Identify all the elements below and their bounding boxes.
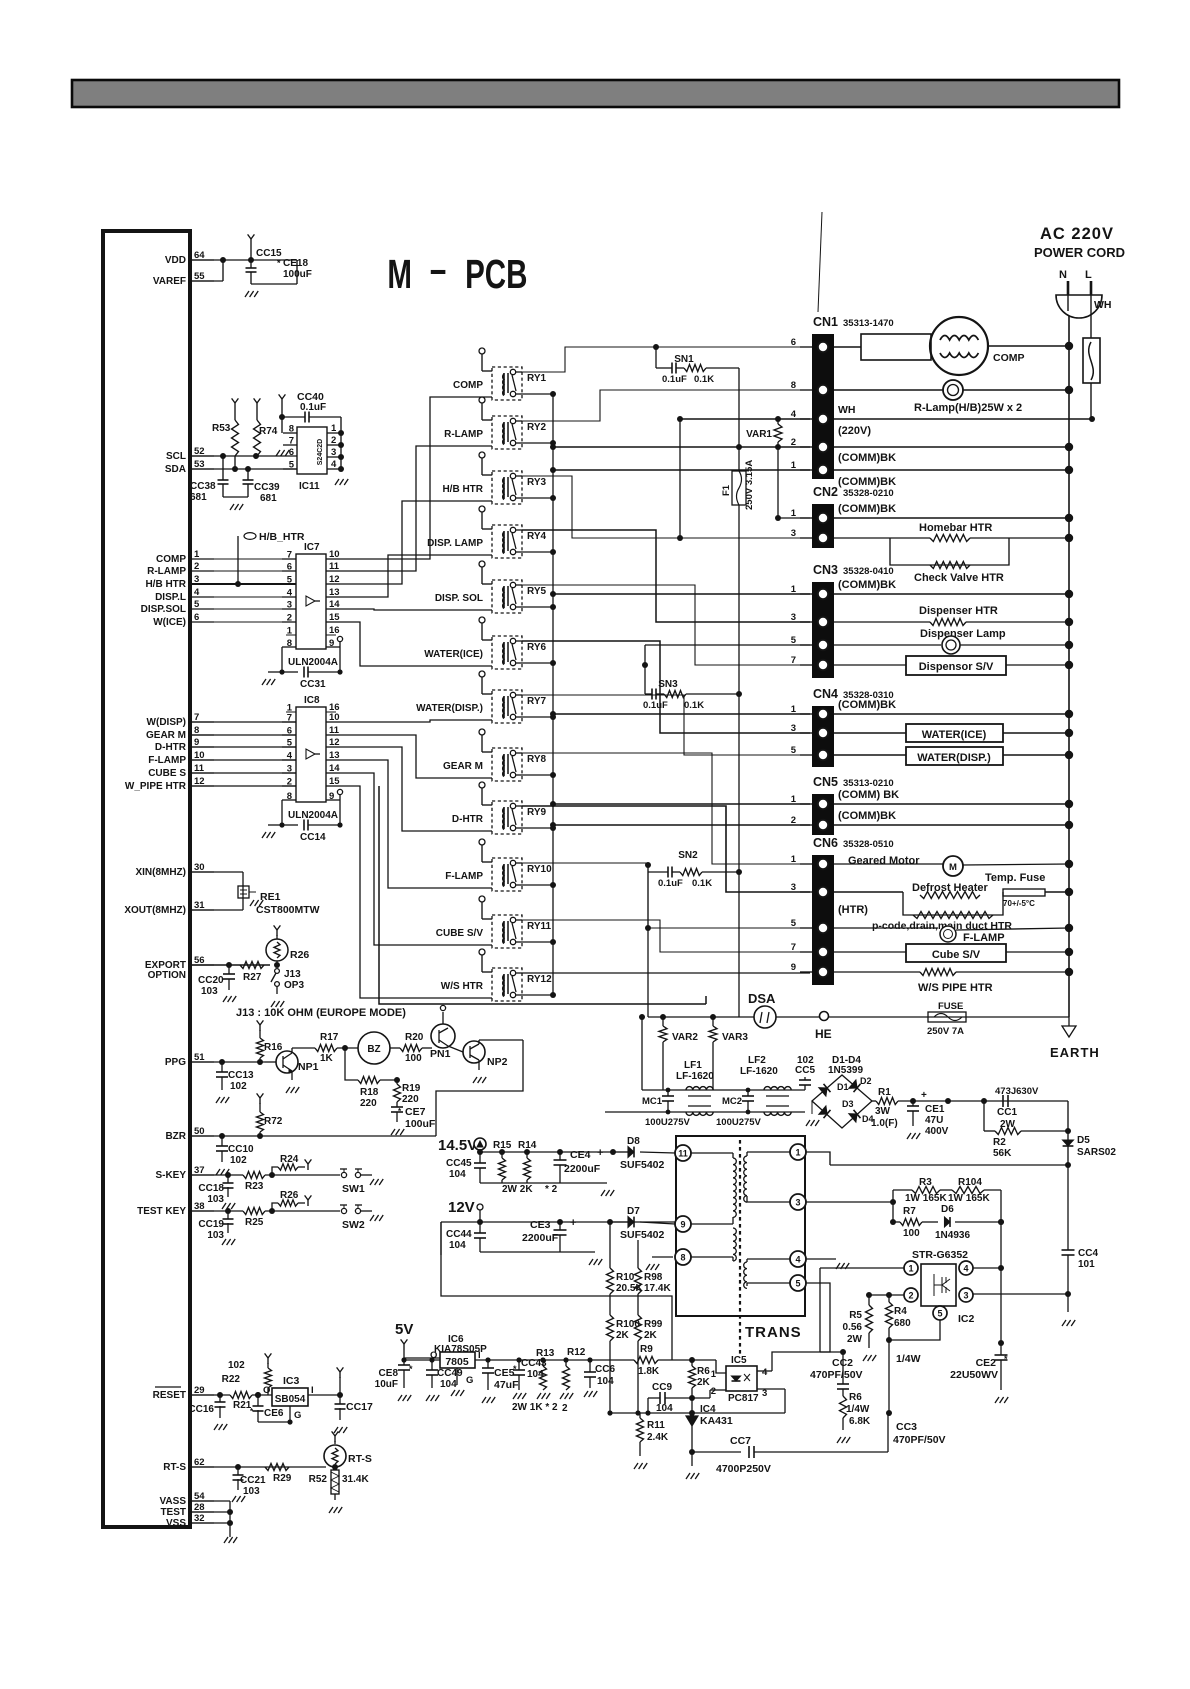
svg-text:CE1: CE1 <box>925 1104 945 1115</box>
svg-text:PCB: PCB <box>465 251 527 297</box>
svg-text:Dispenser Lamp: Dispenser Lamp <box>920 628 1006 640</box>
svg-text:R27: R27 <box>243 972 262 983</box>
svg-text:N: N <box>1059 269 1067 281</box>
svg-text:1W 165K: 1W 165K <box>905 1193 947 1204</box>
svg-text:220: 220 <box>360 1098 377 1109</box>
svg-text:12: 12 <box>329 737 340 748</box>
svg-text:R104: R104 <box>958 1177 982 1188</box>
svg-text:31.4K: 31.4K <box>342 1474 369 1485</box>
svg-text:5: 5 <box>791 918 797 929</box>
svg-text:4: 4 <box>795 1255 800 1265</box>
svg-text:W_PIPE HTR: W_PIPE HTR <box>125 781 187 792</box>
svg-text:2: 2 <box>331 435 336 446</box>
svg-text:250V 7A: 250V 7A <box>927 1026 964 1037</box>
svg-text:3: 3 <box>963 1291 968 1301</box>
svg-text:CC4: CC4 <box>1078 1248 1098 1259</box>
svg-text:(COMM)BK: (COMM)BK <box>838 503 896 515</box>
svg-text:G: G <box>294 1410 301 1421</box>
svg-text:7: 7 <box>289 436 294 447</box>
svg-text:1: 1 <box>287 703 293 714</box>
svg-text:RT-S: RT-S <box>163 1462 186 1473</box>
svg-text:70+/-5°C: 70+/-5°C <box>1003 899 1035 908</box>
svg-text:10: 10 <box>329 712 340 723</box>
svg-text:CC17: CC17 <box>346 1401 373 1413</box>
svg-text:CC1: CC1 <box>997 1107 1017 1118</box>
svg-text:R26: R26 <box>280 1190 299 1201</box>
svg-text:7: 7 <box>791 942 796 953</box>
svg-text:R25: R25 <box>245 1217 264 1228</box>
svg-text:SW1: SW1 <box>342 1183 365 1195</box>
svg-text:R19: R19 <box>402 1083 421 1094</box>
svg-text:BZR: BZR <box>165 1131 186 1142</box>
svg-text:R52: R52 <box>309 1474 328 1485</box>
svg-text:RY12: RY12 <box>527 974 552 985</box>
svg-text:0.56: 0.56 <box>843 1322 863 1333</box>
svg-text:0.1K: 0.1K <box>684 700 704 711</box>
svg-text:S-KEY: S-KEY <box>155 1170 186 1181</box>
svg-text:100uF: 100uF <box>283 269 312 280</box>
svg-text:D-HTR: D-HTR <box>452 814 484 825</box>
svg-text:OPTION: OPTION <box>148 970 186 981</box>
svg-text:102: 102 <box>230 1155 247 1166</box>
svg-text:W/S HTR: W/S HTR <box>441 981 484 992</box>
svg-text:H/B HTR: H/B HTR <box>145 579 186 590</box>
svg-text:0.1K: 0.1K <box>694 374 714 385</box>
svg-text:CC9: CC9 <box>652 1382 672 1393</box>
svg-text:*: * <box>409 1364 413 1374</box>
svg-text:(COMM)BK: (COMM)BK <box>838 810 896 822</box>
svg-text:10uF: 10uF <box>375 1379 398 1390</box>
svg-text:8: 8 <box>289 424 294 435</box>
svg-text:5: 5 <box>791 745 797 756</box>
svg-text:5: 5 <box>795 1279 800 1289</box>
svg-text:SW2: SW2 <box>342 1219 365 1231</box>
svg-text:CC21: CC21 <box>240 1475 266 1486</box>
svg-text:104: 104 <box>440 1379 457 1390</box>
svg-text:LF2: LF2 <box>748 1055 766 1066</box>
svg-text:CC13: CC13 <box>228 1070 254 1081</box>
svg-text:15: 15 <box>329 776 340 787</box>
svg-text:5V: 5V <box>395 1321 413 1338</box>
svg-text:OP3: OP3 <box>284 980 304 991</box>
svg-text:WATER(ICE): WATER(ICE) <box>424 649 483 660</box>
svg-text:IC11: IC11 <box>299 481 320 492</box>
svg-text:CC6: CC6 <box>595 1364 615 1375</box>
svg-text:R24: R24 <box>280 1154 299 1165</box>
svg-text:15: 15 <box>329 612 340 623</box>
svg-text:681: 681 <box>260 493 277 504</box>
svg-text:4: 4 <box>331 459 337 470</box>
svg-text:(220V): (220V) <box>838 425 871 437</box>
svg-text:R1: R1 <box>878 1087 891 1098</box>
svg-text:MC1: MC1 <box>642 1096 663 1107</box>
svg-text:BZ: BZ <box>367 1044 380 1055</box>
svg-text:DISP.L: DISP.L <box>155 592 186 603</box>
svg-text:R20: R20 <box>405 1032 424 1043</box>
svg-text:R16: R16 <box>264 1042 283 1053</box>
svg-text:GEAR M: GEAR M <box>443 761 483 772</box>
svg-text:0.1uF: 0.1uF <box>662 374 687 385</box>
svg-text:Geared Motor: Geared Motor <box>848 855 920 867</box>
svg-text:L: L <box>1085 269 1092 281</box>
svg-text:4: 4 <box>791 409 797 420</box>
svg-text:R17: R17 <box>320 1032 339 1043</box>
svg-text:COMP: COMP <box>156 554 186 565</box>
svg-text:H/B_HTR: H/B_HTR <box>259 531 305 543</box>
svg-text:1: 1 <box>791 704 797 715</box>
svg-text:IC8: IC8 <box>304 695 320 706</box>
svg-text:9: 9 <box>791 962 796 973</box>
svg-text:IC2: IC2 <box>958 1313 975 1325</box>
svg-text:35328-0510: 35328-0510 <box>843 839 894 850</box>
svg-text:1: 1 <box>795 1148 800 1158</box>
svg-text:13: 13 <box>329 750 340 761</box>
svg-text:47uF: 47uF <box>494 1379 519 1391</box>
svg-text:POWER CORD: POWER CORD <box>1034 245 1125 260</box>
svg-text:Homebar HTR: Homebar HTR <box>919 522 992 534</box>
svg-text:6: 6 <box>289 447 294 458</box>
svg-text:SN2: SN2 <box>678 850 698 861</box>
svg-text:CE8: CE8 <box>379 1368 399 1379</box>
svg-text:CC16: CC16 <box>188 1404 214 1415</box>
svg-text:W(DISP): W(DISP) <box>147 717 186 728</box>
svg-text:TEST KEY: TEST KEY <box>137 1206 186 1217</box>
svg-text:CUBE S/V: CUBE S/V <box>436 928 484 939</box>
svg-text:100uF: 100uF <box>405 1118 436 1130</box>
svg-text:D7: D7 <box>627 1206 640 1217</box>
svg-text:RY7: RY7 <box>527 696 547 707</box>
svg-text:4700P250V: 4700P250V <box>716 1463 771 1475</box>
svg-text:R72: R72 <box>264 1116 283 1127</box>
svg-text:CC31: CC31 <box>300 679 326 690</box>
svg-text:103: 103 <box>243 1486 260 1497</box>
svg-text:2: 2 <box>791 437 796 448</box>
svg-text:LF-1620: LF-1620 <box>740 1066 778 1077</box>
svg-text:8: 8 <box>791 380 796 391</box>
svg-text:R11: R11 <box>647 1420 665 1431</box>
svg-text:(COMM)BK: (COMM)BK <box>838 579 896 591</box>
svg-text:5: 5 <box>791 635 797 646</box>
svg-text:ULN2004A: ULN2004A <box>288 657 338 668</box>
svg-text:PPG: PPG <box>165 1057 186 1068</box>
svg-text:R53: R53 <box>212 423 231 434</box>
svg-text:IC3: IC3 <box>283 1375 300 1387</box>
svg-text:RY4: RY4 <box>527 531 547 542</box>
svg-text:16: 16 <box>329 625 340 636</box>
svg-text:ULN2004A: ULN2004A <box>288 810 338 821</box>
svg-text:M: M <box>387 251 412 297</box>
svg-text:F-LAMP: F-LAMP <box>148 755 186 766</box>
svg-text:11: 11 <box>678 1149 688 1159</box>
svg-text:CC7: CC7 <box>730 1435 751 1447</box>
svg-text:103: 103 <box>207 1230 224 1241</box>
svg-text:W/S PIPE HTR: W/S PIPE HTR <box>918 982 993 994</box>
svg-text:6.8K: 6.8K <box>849 1416 871 1427</box>
svg-text:100U275V: 100U275V <box>716 1117 762 1128</box>
svg-text:(HTR): (HTR) <box>838 904 868 916</box>
svg-text:20.5K: 20.5K <box>616 1283 643 1294</box>
svg-text:35313-1470: 35313-1470 <box>843 318 894 329</box>
svg-text:100U275V: 100U275V <box>645 1117 691 1128</box>
svg-text:DISP. SOL: DISP. SOL <box>435 593 483 604</box>
svg-text:3: 3 <box>791 528 796 539</box>
svg-text:R2: R2 <box>993 1137 1006 1148</box>
svg-text:R13: R13 <box>536 1348 555 1359</box>
svg-text:6: 6 <box>791 337 796 348</box>
svg-text:1: 1 <box>791 854 797 865</box>
svg-text:TRANS: TRANS <box>745 1324 802 1341</box>
svg-text:WATER(ICE): WATER(ICE) <box>922 729 987 741</box>
svg-text:R18: R18 <box>360 1087 379 1098</box>
svg-text:11: 11 <box>329 561 340 572</box>
svg-text:J13 : 10K OHM (EUROPE MODE): J13 : 10K OHM (EUROPE MODE) <box>236 1007 406 1019</box>
svg-text:VASS: VASS <box>160 1496 187 1507</box>
svg-text:CE3: CE3 <box>530 1219 551 1231</box>
svg-text:1N4936: 1N4936 <box>935 1230 970 1241</box>
svg-text:F-LAMP: F-LAMP <box>445 871 483 882</box>
svg-text:R100: R100 <box>616 1319 640 1330</box>
svg-text:D-HTR: D-HTR <box>155 742 187 753</box>
svg-text:*: * <box>1004 1354 1008 1364</box>
svg-text:2W 2K: 2W 2K <box>502 1184 533 1195</box>
svg-text:VAR2: VAR2 <box>672 1032 698 1043</box>
svg-text:RY1: RY1 <box>527 373 547 384</box>
svg-text:HE: HE <box>815 1027 832 1041</box>
svg-text:SN3: SN3 <box>658 679 678 690</box>
svg-text:35313-0210: 35313-0210 <box>843 778 894 789</box>
svg-text:470PF/50V: 470PF/50V <box>810 1369 863 1381</box>
svg-text:Cube S/V: Cube S/V <box>932 949 981 961</box>
svg-text:R-LAMP: R-LAMP <box>147 566 186 577</box>
svg-text:WATER(DISP.): WATER(DISP.) <box>416 703 483 714</box>
svg-text:35328-0210: 35328-0210 <box>843 488 894 499</box>
svg-text:(COMM) BK: (COMM) BK <box>838 789 899 801</box>
svg-text:RY6: RY6 <box>527 642 547 653</box>
svg-text:+: + <box>597 1147 603 1159</box>
svg-text:RY11: RY11 <box>527 921 552 932</box>
svg-text:VDD: VDD <box>165 255 186 266</box>
svg-text:KA431: KA431 <box>700 1415 733 1427</box>
svg-text:IC7: IC7 <box>304 542 320 553</box>
svg-text:R5: R5 <box>849 1310 862 1321</box>
svg-text:12V: 12V <box>448 1199 475 1216</box>
svg-text:H/B HTR: H/B HTR <box>442 484 483 495</box>
svg-text:2W: 2W <box>847 1334 863 1345</box>
svg-text:22U50WV: 22U50WV <box>950 1369 998 1381</box>
svg-text:R6: R6 <box>697 1366 710 1377</box>
svg-text:1/4W: 1/4W <box>846 1404 870 1415</box>
svg-text:R12: R12 <box>567 1347 586 1358</box>
svg-text:R22: R22 <box>222 1374 241 1385</box>
svg-text:1W 165K: 1W 165K <box>948 1193 990 1204</box>
svg-text:CC10: CC10 <box>228 1144 254 1155</box>
svg-text:1: 1 <box>791 794 797 805</box>
svg-text:11: 11 <box>329 725 340 736</box>
svg-text:104: 104 <box>449 1169 466 1180</box>
svg-text:CC3: CC3 <box>896 1421 917 1433</box>
svg-text:47U: 47U <box>925 1115 943 1126</box>
svg-text:R26: R26 <box>290 949 309 961</box>
svg-text:CC44: CC44 <box>446 1229 472 1240</box>
svg-text:R15: R15 <box>493 1140 512 1151</box>
svg-text:470PF/50V: 470PF/50V <box>893 1434 946 1446</box>
svg-text:2K: 2K <box>644 1330 658 1341</box>
svg-text:14.5V: 14.5V <box>438 1137 477 1154</box>
svg-text:D1: D1 <box>837 1082 849 1092</box>
svg-text:12: 12 <box>329 574 340 585</box>
svg-text:7805: 7805 <box>445 1356 469 1368</box>
svg-text:R21: R21 <box>233 1400 252 1411</box>
svg-text:CE18: CE18 <box>283 258 308 269</box>
svg-text:Dispensor S/V: Dispensor S/V <box>919 661 994 673</box>
svg-text:D5: D5 <box>1077 1135 1090 1146</box>
svg-text:400V: 400V <box>925 1126 949 1137</box>
svg-text:(COMM)BK: (COMM)BK <box>838 699 896 711</box>
svg-text:4: 4 <box>963 1264 968 1274</box>
svg-text:CE7: CE7 <box>405 1106 426 1118</box>
svg-text:1: 1 <box>791 508 797 519</box>
svg-text:W(ICE): W(ICE) <box>153 617 186 628</box>
svg-text:102: 102 <box>228 1360 245 1371</box>
svg-text:J13: J13 <box>284 969 301 980</box>
svg-text:RY2: RY2 <box>527 422 547 433</box>
svg-text:2200uF: 2200uF <box>564 1163 601 1175</box>
svg-text:7: 7 <box>791 655 796 666</box>
svg-text:CN2: CN2 <box>813 485 838 499</box>
svg-text:CE2: CE2 <box>976 1357 997 1369</box>
svg-text:CC14: CC14 <box>300 832 326 843</box>
svg-text:4: 4 <box>762 1367 768 1378</box>
svg-text:AC 220V: AC 220V <box>1040 225 1114 243</box>
svg-text:100: 100 <box>405 1053 422 1064</box>
svg-text:100: 100 <box>903 1228 920 1239</box>
svg-text:R6: R6 <box>849 1392 862 1403</box>
svg-text:CN1: CN1 <box>813 315 838 329</box>
svg-text:+: + <box>921 1090 927 1101</box>
svg-text:(COMM)BK: (COMM)BK <box>838 476 896 488</box>
svg-text:104: 104 <box>449 1240 466 1251</box>
svg-text:R10: R10 <box>616 1272 635 1283</box>
svg-text:D3: D3 <box>842 1099 854 1109</box>
svg-text:103: 103 <box>201 986 218 997</box>
svg-text:COMP: COMP <box>993 352 1025 364</box>
svg-text:R14: R14 <box>518 1140 537 1151</box>
svg-text:DISP. LAMP: DISP. LAMP <box>427 538 483 549</box>
svg-text:* 2: * 2 <box>545 1184 558 1195</box>
svg-text:CN6: CN6 <box>813 836 838 850</box>
svg-text:250V 3.15A: 250V 3.15A <box>744 460 755 510</box>
svg-text:DISP.SOL: DISP.SOL <box>141 604 186 615</box>
svg-text:TEST: TEST <box>160 1507 186 1518</box>
svg-text:CUBE S: CUBE S <box>148 768 186 779</box>
svg-text:3: 3 <box>331 447 336 458</box>
svg-text:14: 14 <box>329 599 340 610</box>
svg-text:F-LAMP: F-LAMP <box>963 932 1005 944</box>
svg-text:XOUT(8MHZ): XOUT(8MHZ) <box>124 905 186 916</box>
svg-text:SDA: SDA <box>165 464 186 475</box>
svg-text:R-Lamp(H/B)25W x 2: R-Lamp(H/B)25W x 2 <box>914 402 1022 414</box>
svg-text:1: 1 <box>287 626 293 637</box>
svg-text:D6: D6 <box>941 1204 954 1215</box>
svg-text:2.4K: 2.4K <box>647 1432 669 1443</box>
svg-text:Check Valve HTR: Check Valve HTR <box>914 572 1004 584</box>
svg-text:R7: R7 <box>903 1206 916 1217</box>
svg-text:2K: 2K <box>697 1377 711 1388</box>
svg-text:RY9: RY9 <box>527 807 547 818</box>
svg-text:R4: R4 <box>894 1306 907 1317</box>
svg-text:2W 1K * 2: 2W 1K * 2 <box>512 1402 558 1413</box>
svg-text:1/4W: 1/4W <box>896 1353 921 1365</box>
svg-text:VAR1: VAR1 <box>746 429 772 440</box>
svg-text:13: 13 <box>329 587 340 598</box>
svg-text:R3: R3 <box>919 1177 932 1188</box>
svg-text:VAREF: VAREF <box>153 276 186 287</box>
svg-text:LF-1620: LF-1620 <box>676 1071 714 1082</box>
svg-text:CC20: CC20 <box>198 975 224 986</box>
svg-text:CC39: CC39 <box>254 482 280 493</box>
svg-text:103: 103 <box>207 1194 224 1205</box>
svg-text:3W: 3W <box>875 1106 891 1117</box>
svg-text:10: 10 <box>329 549 340 560</box>
svg-text:–: – <box>430 246 446 292</box>
svg-text:3: 3 <box>791 723 796 734</box>
svg-text:0.1uF: 0.1uF <box>300 402 326 413</box>
svg-text:1N5399: 1N5399 <box>828 1065 863 1076</box>
svg-text:D8: D8 <box>627 1136 640 1147</box>
svg-text:SB054: SB054 <box>275 1394 306 1405</box>
svg-text:101: 101 <box>1078 1259 1095 1270</box>
svg-text:CC45: CC45 <box>446 1158 472 1169</box>
svg-text:WH: WH <box>1094 299 1112 311</box>
svg-text:SCL: SCL <box>166 451 186 462</box>
svg-text:1.8K: 1.8K <box>638 1366 660 1377</box>
svg-text:3: 3 <box>795 1198 800 1208</box>
svg-text:D2: D2 <box>860 1076 872 1086</box>
svg-text:DSA: DSA <box>748 991 776 1006</box>
svg-text:Dispenser HTR: Dispenser HTR <box>919 605 998 617</box>
svg-text:2: 2 <box>711 1386 716 1397</box>
svg-text:CN4: CN4 <box>813 687 838 701</box>
svg-text:PC817: PC817 <box>728 1393 759 1404</box>
svg-text:XIN(8MHZ): XIN(8MHZ) <box>135 867 186 878</box>
svg-text:CST800MTW: CST800MTW <box>256 904 320 916</box>
svg-text:R29: R29 <box>273 1473 292 1484</box>
svg-text:102: 102 <box>230 1081 247 1092</box>
svg-text:1: 1 <box>791 460 797 471</box>
svg-text:CE6: CE6 <box>264 1408 284 1419</box>
svg-text:1K: 1K <box>320 1053 334 1064</box>
svg-text:CC49: CC49 <box>437 1368 463 1379</box>
svg-text:SN1: SN1 <box>674 354 694 365</box>
svg-text:104: 104 <box>597 1376 614 1387</box>
svg-text:0.1uF: 0.1uF <box>658 878 683 889</box>
svg-text:PN1: PN1 <box>430 1048 451 1060</box>
svg-text:MC2: MC2 <box>722 1096 742 1107</box>
svg-text:220: 220 <box>402 1094 419 1105</box>
svg-text:5: 5 <box>289 460 295 471</box>
svg-text:NP1: NP1 <box>298 1061 319 1073</box>
svg-text:3: 3 <box>791 882 796 893</box>
svg-text:LF1: LF1 <box>684 1060 702 1071</box>
svg-text:Temp. Fuse: Temp. Fuse <box>985 872 1045 884</box>
svg-text:680: 680 <box>894 1318 911 1329</box>
svg-text:CC19: CC19 <box>198 1219 224 1230</box>
svg-text:1.0(F): 1.0(F) <box>871 1118 898 1129</box>
svg-text:CN3: CN3 <box>813 563 838 577</box>
svg-text:S24C2D: S24C2D <box>317 439 324 465</box>
svg-text:0.1uF: 0.1uF <box>643 700 668 711</box>
svg-text:CC5: CC5 <box>795 1065 815 1076</box>
